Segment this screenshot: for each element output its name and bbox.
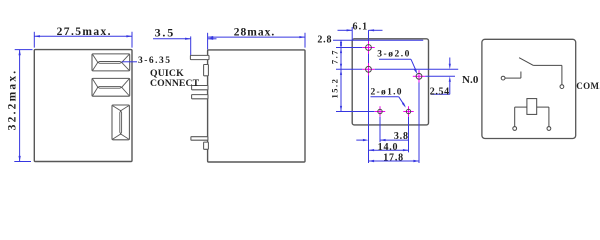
svg-text:28max.: 28max.: [234, 26, 275, 38]
svg-text:2-ø1.0: 2-ø1.0: [371, 88, 403, 98]
svg-text:2.54: 2.54: [430, 87, 450, 98]
svg-text:17.8: 17.8: [383, 153, 404, 164]
svg-text:6.1: 6.1: [352, 21, 368, 32]
svg-text:2.8: 2.8: [317, 34, 332, 45]
svg-text:3.8: 3.8: [394, 131, 409, 142]
svg-text:32.2max.: 32.2max.: [6, 69, 18, 131]
svg-text:27.5max.: 27.5max.: [57, 26, 112, 38]
svg-text:CONNECT: CONNECT: [150, 78, 200, 89]
svg-text:COM.: COM.: [576, 81, 600, 91]
svg-text:3-6.35: 3-6.35: [138, 56, 172, 66]
svg-text:N.0: N.0: [462, 74, 479, 86]
svg-text:3-ø2.0: 3-ø2.0: [377, 49, 411, 59]
svg-text:15.2: 15.2: [330, 78, 340, 99]
svg-text:3.5: 3.5: [155, 25, 175, 39]
svg-text:14.0: 14.0: [378, 142, 399, 153]
svg-text:7.7: 7.7: [330, 49, 340, 64]
